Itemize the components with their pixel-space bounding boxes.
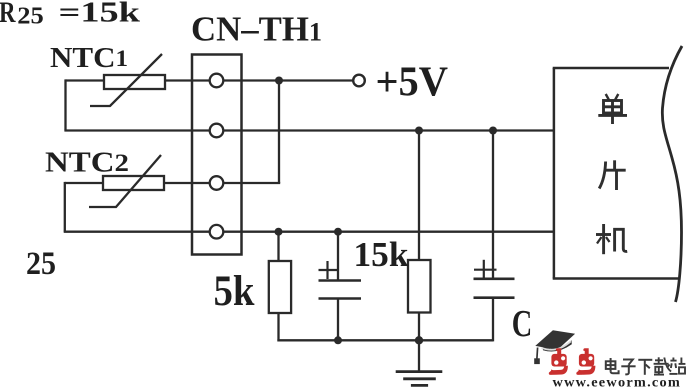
svg-text:=15k: =15k — [59, 0, 141, 29]
wire NTC2 left lead — [65, 182, 103, 184]
wire cap C1 bottom lead — [337, 299, 339, 341]
svg-text:NTC1: NTC1 — [50, 43, 128, 74]
svg-text:+5V: +5V — [376, 59, 449, 105]
svg-text:www.eeworm.com: www.eeworm.com — [553, 376, 682, 388]
watermark cap stripe — [541, 341, 571, 349]
watermark graduation cap — [534, 330, 575, 364]
connector pin 4 — [210, 225, 224, 239]
MCU char 片 — [599, 160, 626, 190]
junction node 5k top — [275, 228, 283, 236]
label R25=15k — [0, 0, 141, 30]
wire row2 loop bottom to MCU — [64, 129, 554, 131]
capacitor C1 plus sign — [319, 261, 338, 279]
svg-text:NTC2: NTC2 — [45, 148, 129, 179]
wire cap C2 bottom lead — [492, 298, 494, 342]
watermark bug worm 1 — [549, 348, 568, 375]
wire cap C1 top lead — [337, 232, 339, 281]
watermark text 电 — [606, 358, 619, 373]
junction node row1 +5V — [275, 77, 283, 85]
svg-text:25: 25 — [26, 246, 56, 282]
wire 15k top lead — [418, 131, 420, 261]
wire 5k bottom lead — [277, 313, 279, 341]
junction node 15k top — [415, 127, 423, 135]
thermistor NTC2 body — [103, 176, 164, 190]
watermark text 载 — [654, 357, 672, 374]
svg-text:25: 25 — [17, 4, 44, 30]
wire bottom rail — [277, 339, 493, 341]
watermark cap tassel — [536, 348, 539, 359]
wire row1 NTC1 right lead to +5V terminal — [165, 79, 353, 81]
thermistor NTC1 arrow — [90, 54, 162, 106]
terminal +5V circle — [353, 75, 365, 87]
watermark text 下 — [638, 360, 652, 375]
svg-text:CN–TH1: CN–TH1 — [191, 11, 322, 49]
ground — [396, 372, 443, 386]
watermark bug worm 2 — [576, 348, 595, 375]
capacitor C1 plates — [319, 281, 362, 299]
wire cap C2 top lead — [492, 131, 494, 279]
torn edge curve — [662, 46, 682, 302]
resistor 15k body — [408, 260, 431, 313]
ground stem — [418, 340, 420, 371]
wire row3 NTC2 right lead to jumper — [164, 182, 280, 184]
resistor 5k body — [269, 261, 291, 313]
wire row4 loop bottom to MCU — [64, 231, 554, 233]
svg-text:15k: 15k — [354, 235, 410, 274]
junction node C1 bottom — [334, 336, 342, 344]
connector pin 1 — [210, 74, 224, 88]
capacitor C2 plates — [474, 279, 515, 298]
watermark text 子 — [621, 360, 635, 375]
junction node C1 top — [334, 228, 342, 236]
capacitor C2 plus sign — [474, 260, 497, 279]
wire 15k bottom lead — [418, 313, 420, 341]
wire +5V jumper vertical — [278, 81, 280, 184]
svg-text:5k: 5k — [214, 268, 255, 315]
MCU char 单 — [598, 94, 627, 124]
junction node C2 top — [489, 127, 497, 135]
MCU char 机 — [596, 224, 627, 254]
thermistor NTC1 body — [104, 75, 165, 89]
svg-text:R: R — [0, 0, 16, 29]
wire 5k top lead — [277, 232, 279, 261]
connector pin 3 — [210, 176, 224, 190]
wire NTC2 loop left vertical — [64, 182, 66, 232]
connector CN-TH1 box — [192, 55, 242, 255]
junction node ground — [415, 336, 423, 344]
wire NTC1 left lead — [66, 79, 105, 81]
svg-text:C: C — [512, 303, 533, 345]
MCU box 单片机 — [553, 68, 680, 279]
thermistor NTC2 arrow — [89, 155, 161, 207]
watermark text 站 — [669, 358, 685, 374]
wire NTC1 loop left vertical — [64, 79, 66, 130]
connector pin 2 — [210, 124, 224, 138]
